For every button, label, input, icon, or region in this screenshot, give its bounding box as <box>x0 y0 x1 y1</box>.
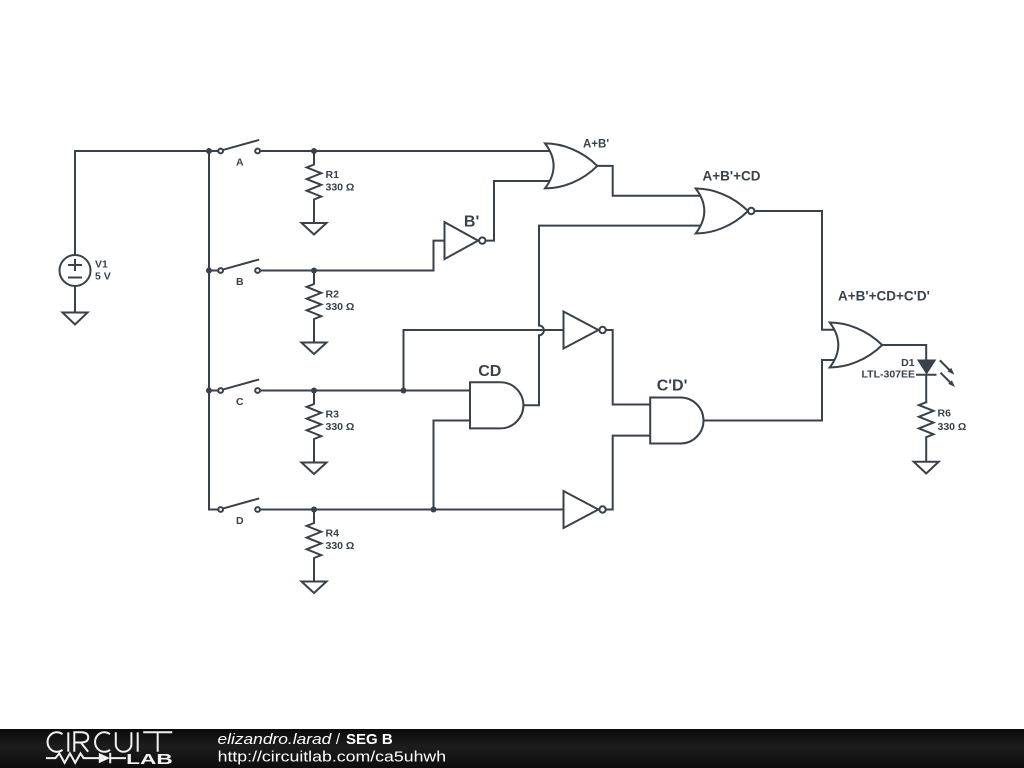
label R6 <box>938 408 967 434</box>
wire V1 top to rail <box>75 151 209 255</box>
label R4 <box>326 528 355 553</box>
label D1 <box>862 357 915 380</box>
wire NOR output to final OR top input <box>755 211 836 330</box>
inverter C' <box>564 312 606 349</box>
node junction R3 <box>311 388 317 394</box>
svg-text:C: C <box>236 396 244 408</box>
label V1 value <box>95 259 111 283</box>
wire C riser to inverter C' <box>404 330 564 391</box>
svg-text:R6: R6 <box>938 408 952 420</box>
resistor R3 <box>307 391 322 463</box>
resistor R2 <box>307 271 322 343</box>
svg-text:elizandro.larad: elizandro.larad <box>218 731 333 748</box>
svg-text:A: A <box>236 157 244 169</box>
svg-text:330 Ω: 330 Ω <box>938 421 967 433</box>
svg-text:LAB: LAB <box>126 751 173 768</box>
label R3 <box>326 409 355 434</box>
resistor R1 <box>307 151 322 223</box>
node junction R2 <box>311 268 317 274</box>
footer title line <box>218 731 447 765</box>
LED D1 <box>917 361 936 375</box>
switch D <box>209 499 260 512</box>
ground R6 <box>914 462 939 474</box>
svg-text:C'D': C'D' <box>657 378 688 395</box>
svg-text:330 Ω: 330 Ω <box>326 421 355 433</box>
ground V1 <box>63 313 88 325</box>
wire CD output to NOR with hop <box>523 226 701 406</box>
label R1 <box>326 169 355 194</box>
nor-gate A+B'+CD <box>696 189 755 234</box>
wire C' output to AND C'D' <box>606 330 650 405</box>
svg-text:D1: D1 <box>901 357 915 369</box>
node junction R1 <box>311 148 317 154</box>
wire final OR output to LED <box>882 345 926 360</box>
svg-text:R2: R2 <box>326 289 340 301</box>
node junction A rail <box>206 148 212 154</box>
svg-text:330 Ω: 330 Ω <box>326 540 355 552</box>
logo resistor-diode line <box>46 753 126 763</box>
svg-text:B: B <box>236 276 244 288</box>
wire row C to AND gate CD <box>261 390 470 392</box>
or-gate A+B'+CD+C'D' <box>830 323 883 368</box>
resistor R6 <box>919 402 934 461</box>
ground R4 <box>302 582 327 594</box>
svg-text:CD: CD <box>478 363 501 380</box>
footer bar <box>0 729 1024 768</box>
svg-text:LTL-307EE: LTL-307EE <box>862 368 915 380</box>
ground R1 <box>302 223 327 235</box>
svg-text:330 Ω: 330 Ω <box>326 182 355 194</box>
node junction C riser <box>401 388 407 394</box>
node junction D riser <box>431 507 437 513</box>
logo CIRCUIT <box>48 732 173 752</box>
switch B <box>209 260 260 273</box>
ground R2 <box>302 343 327 355</box>
svg-text:A+B': A+B' <box>583 139 609 151</box>
wire LED to R6 <box>925 375 927 403</box>
wire C'D' output to final OR bottom input <box>704 360 837 421</box>
svg-text:V1: V1 <box>95 259 108 271</box>
and-gate C'D' <box>650 398 703 444</box>
node junction R4 <box>311 507 317 513</box>
wire D' output to AND C'D' <box>606 436 650 510</box>
svg-text:330 Ω: 330 Ω <box>326 301 355 313</box>
svg-text:SEG B: SEG B <box>346 731 393 748</box>
and-gate CD <box>470 382 523 428</box>
wire OR1 output to NOR <box>597 166 701 196</box>
svg-text:D: D <box>236 515 244 527</box>
svg-text:R1: R1 <box>326 169 340 181</box>
wire row B to inverter <box>261 241 445 271</box>
svg-text:R3: R3 <box>326 409 340 421</box>
wire inverter B' output up to OR gate <box>487 181 552 241</box>
label R2 <box>326 289 355 314</box>
wire left rail <box>208 151 210 510</box>
svg-text:5 V: 5 V <box>95 271 111 283</box>
wire V1 bottom <box>74 286 76 313</box>
wire row D to inverter D' <box>261 509 564 511</box>
wire row A <box>261 150 551 152</box>
svg-text:A+B'+CD: A+B'+CD <box>703 169 761 184</box>
switch A <box>209 140 260 153</box>
wire D riser to AND gate CD <box>434 421 471 510</box>
switch C <box>209 380 260 393</box>
inverter B' <box>445 222 486 259</box>
voltage source V1 <box>60 255 91 286</box>
node junction C rail <box>206 388 212 394</box>
svg-text:http://circuitlab.com/ca5uhwh: http://circuitlab.com/ca5uhwh <box>218 749 447 766</box>
LED arrows <box>941 361 956 387</box>
svg-text:B': B' <box>464 214 479 231</box>
or-gate A+B' <box>545 143 597 188</box>
svg-text:R4: R4 <box>326 528 340 540</box>
ground R3 <box>302 463 327 475</box>
resistor R4 <box>307 510 322 582</box>
inverter D' <box>564 491 606 528</box>
node junction B rail <box>206 268 212 274</box>
svg-text:A+B'+CD+C'D': A+B'+CD+C'D' <box>838 288 930 303</box>
